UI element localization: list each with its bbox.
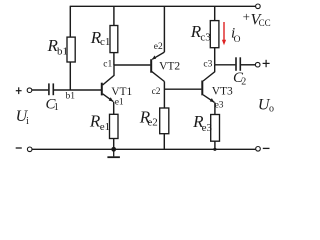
wire node c1 to VT2 base — [114, 64, 150, 66]
arrow VT3 emitter — [210, 98, 215, 102]
wire Rc3 top lead — [214, 6, 216, 20]
label +Vcc — [243, 9, 271, 28]
wire input terminal to C1 — [32, 89, 49, 91]
svg-text:c2: c2 — [152, 87, 161, 97]
svg-text:CC: CC — [259, 18, 271, 28]
label Re2 — [139, 107, 158, 128]
svg-text:O: O — [234, 35, 241, 45]
svg-text:i: i — [26, 116, 29, 127]
svg-text:e2: e2 — [154, 42, 163, 52]
terminal output minus — [256, 147, 261, 152]
wire Rc3 bottom lead to node c3 — [214, 48, 216, 65]
label Rc3 — [190, 22, 211, 43]
wire VT1 emitter to Re1 — [113, 102, 115, 115]
terminal input plus — [27, 88, 32, 93]
svg-text:VT3: VT3 — [212, 86, 233, 98]
wire bottom rail — [32, 148, 256, 150]
wire Rb1 top lead — [69, 6, 71, 37]
ground — [107, 149, 120, 157]
wire VT2 collector down to Re2 — [163, 82, 165, 109]
wire Rc1 top lead — [113, 6, 115, 25]
label C2 — [233, 70, 246, 88]
red current arrow io — [222, 22, 226, 45]
label io — [231, 26, 241, 45]
svg-text:e1: e1 — [100, 121, 110, 133]
wire C2 to output terminal — [241, 64, 256, 66]
label Re3 — [192, 112, 212, 134]
resistor Rc1 — [110, 26, 118, 53]
terminal Vcc — [256, 4, 261, 9]
plus sign output — [263, 60, 270, 67]
svg-text:c1: c1 — [100, 36, 110, 48]
resistor Re2 — [160, 108, 169, 134]
svg-text:VT2: VT2 — [159, 61, 180, 73]
wire node c2 to VT3 base — [164, 88, 201, 90]
junction dot Re3 bottom — [213, 148, 216, 151]
label Re1 — [89, 112, 110, 133]
label Rb1 — [47, 36, 69, 58]
svg-text:e1: e1 — [115, 98, 124, 108]
resistor Re1 — [110, 114, 119, 138]
svg-text:b1: b1 — [57, 46, 68, 58]
arrow VT2 emitter — [152, 55, 156, 59]
capacitor C1 — [49, 83, 53, 95]
svg-text:VT1: VT1 — [111, 86, 132, 98]
transistor VT3 — [202, 65, 214, 103]
wire Re3 bottom lead — [214, 141, 216, 149]
wire Rc1 bottom lead to node c1 — [113, 53, 115, 65]
label Rc1 — [90, 28, 111, 48]
label Uo — [258, 97, 274, 115]
label Ui — [16, 108, 30, 127]
junction dot ground node — [111, 147, 116, 152]
wire Rb1 bottom lead to node b1 — [69, 62, 71, 90]
wire Re2 bottom lead — [163, 134, 165, 150]
svg-text:c3: c3 — [200, 32, 211, 44]
svg-text:2: 2 — [241, 76, 246, 87]
svg-text:+: + — [243, 9, 250, 24]
resistor Rc3 — [210, 21, 219, 48]
resistor Re3 — [211, 115, 220, 142]
transistor VT2 — [151, 52, 164, 81]
resistor Rb1 — [67, 37, 75, 62]
terminal input minus — [27, 147, 32, 152]
plus sign input — [16, 87, 22, 94]
svg-text:1: 1 — [54, 102, 59, 113]
terminal output plus — [255, 62, 260, 67]
wire VT2 emitter to top rail — [163, 6, 165, 52]
svg-text:c1: c1 — [103, 60, 112, 70]
svg-text:b1: b1 — [66, 91, 76, 101]
capacitor C2 — [236, 57, 240, 71]
svg-text:o: o — [269, 103, 274, 114]
wire VT3 emitter to Re3 — [214, 103, 216, 115]
svg-text:e3: e3 — [202, 122, 213, 134]
transistor VT1 — [102, 65, 114, 102]
svg-text:c3: c3 — [203, 59, 212, 69]
wire top supply rail — [70, 5, 256, 7]
wire node c3 to C2 — [215, 64, 236, 66]
wire Re1 bottom lead to ground node — [113, 139, 115, 150]
arrow VT1 emitter — [109, 97, 114, 101]
label C1 — [46, 96, 59, 113]
wire C1 to VT1 base — [54, 89, 101, 91]
minus sign output — [263, 147, 270, 149]
svg-text:e3: e3 — [215, 101, 224, 111]
svg-text:e2: e2 — [147, 117, 157, 129]
minus sign input — [16, 147, 22, 149]
